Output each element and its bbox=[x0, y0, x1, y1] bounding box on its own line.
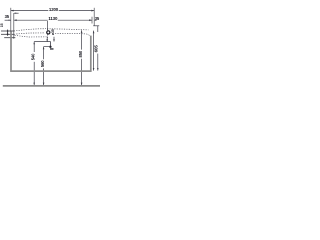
svg-text:560: 560 bbox=[40, 60, 45, 67]
vertical dim B bottom arrow bbox=[43, 83, 45, 86]
dimension 35 left: upper tick line bbox=[14, 12, 19, 14]
dimension 1130: label bbox=[48, 16, 58, 20]
svg-text:1130: 1130 bbox=[48, 16, 58, 21]
dimension 1200: left arrow bbox=[11, 10, 14, 12]
cabinet left edge bbox=[10, 32, 12, 72]
dimension 35 left: arrow bbox=[9, 20, 11, 21]
svg-text:15: 15 bbox=[0, 23, 4, 27]
vertical dim B top arrow bbox=[43, 47, 45, 50]
hole label pointer bbox=[53, 37, 55, 42]
dimension 1130: line bbox=[14, 19, 92, 21]
vertical dim A line bbox=[33, 42, 35, 52]
dimension 1130: right arrow bbox=[89, 19, 92, 21]
towel rail upper line bbox=[1, 30, 14, 32]
dimension 35 right: arrow bbox=[94, 20, 96, 21]
basin outline lower dashed right bbox=[55, 33, 90, 36]
leader stub height bbox=[44, 46, 50, 48]
dimension 35 left: outside arrow line bbox=[5, 19, 11, 21]
vertical dim E bottom arrow bbox=[97, 68, 99, 71]
drain leader upper with corner bbox=[34, 42, 50, 47]
tap hole centre line bbox=[47, 21, 49, 30]
vertical dim B line bbox=[43, 47, 45, 60]
vertical dim D line (cabinet height 605) bbox=[93, 31, 95, 71]
drain bar label bbox=[50, 48, 54, 49]
dimension 1200: right arrow bbox=[91, 10, 94, 12]
dimension 35 left: upper tick arrow bbox=[14, 13, 16, 14]
tap hole circle bbox=[47, 31, 50, 34]
dimension 1130: extension line right bbox=[91, 17, 93, 24]
dimension 1200: line bbox=[11, 10, 94, 12]
towel rail lower line bbox=[1, 33, 14, 35]
dimension 1200: label bbox=[48, 7, 58, 11]
vertical dim A top arrow bbox=[33, 42, 35, 45]
cabinet right edge bbox=[90, 36, 92, 72]
dimension 1200: extension line left bbox=[10, 8, 12, 32]
svg-text:850: 850 bbox=[78, 50, 83, 57]
dimension 35 right: leader line bbox=[93, 25, 99, 27]
dimension 35 right: stub bbox=[97, 26, 99, 32]
basin bowl bottom dashed bbox=[15, 35, 47, 37]
tap stub below circle bbox=[47, 34, 49, 38]
towel rail bracket dot lower bbox=[7, 33, 9, 35]
vertical dim C line bbox=[81, 30, 83, 49]
vertical dim D bottom arrow bbox=[93, 68, 95, 71]
dimension 1130: extension line left bbox=[13, 13, 15, 39]
towel rail bracket dot upper bbox=[7, 30, 9, 32]
svg-text:1200: 1200 bbox=[49, 7, 59, 12]
vertical dim C top arrow bbox=[81, 30, 83, 33]
vertical dim A bottom arrow bbox=[33, 83, 35, 86]
vertical dim C bottom arrow bbox=[81, 83, 83, 86]
svg-text:605: 605 bbox=[94, 45, 99, 53]
vertical dim D top arrow bbox=[93, 31, 95, 34]
dimension 1130: left arrow bbox=[14, 19, 17, 21]
cabinet bottom edge bbox=[10, 70, 91, 72]
floor line bbox=[3, 85, 100, 87]
towel rail third line bbox=[4, 37, 15, 39]
background bbox=[0, 0, 100, 100]
svg-text:ø35: ø35 bbox=[51, 29, 55, 35]
towel rail bracket bbox=[7, 30, 9, 36]
basin outline upper dashed bbox=[14, 29, 89, 31]
basin outline lower dashed left bbox=[14, 33, 44, 34]
dimension 1200: extension line right bbox=[93, 8, 95, 26]
svg-text:540: 540 bbox=[31, 53, 36, 60]
drain dot bbox=[49, 46, 51, 48]
vertical dim E line bbox=[97, 54, 99, 71]
left hole pointer bbox=[46, 37, 48, 42]
